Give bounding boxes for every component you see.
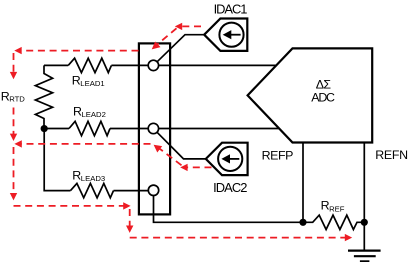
- label R_RTD: [1, 89, 26, 103]
- svg-text:RTD: RTD: [9, 94, 25, 103]
- svg-text:IDAC2: IDAC2: [213, 180, 247, 195]
- svg-text:REF: REF: [329, 204, 345, 213]
- arrow RTD path down upper: [10, 72, 17, 79]
- label R_REF: [321, 198, 345, 213]
- current path: through R_LEAD1 to RTD (red): [14, 51, 139, 138]
- junction node REFP / R_REF left: [299, 219, 306, 226]
- arrow return path down to bottom: [126, 226, 133, 233]
- wire pin 1 to IDAC1: [157, 35, 204, 62]
- wire pin 2 to IDAC2: [157, 132, 206, 159]
- pin 1: [148, 60, 158, 70]
- svg-text:ADC: ADC: [311, 91, 335, 105]
- arrow IDAC1 path left: [175, 23, 182, 30]
- resistor R_REF: [303, 215, 364, 229]
- arrow return path down: [10, 193, 17, 200]
- pin 3: [148, 185, 158, 195]
- wire pin 3 to reference node: [154, 196, 304, 223]
- wire top of RTD to R_LEAD1: [44, 64, 68, 66]
- wire pin 1 to ADC AINP: [159, 64, 278, 66]
- arrow IDAC2 path into pin2: [154, 145, 163, 153]
- resistor R_LEAD1: [68, 58, 111, 72]
- arrow RTD path down lower: [10, 134, 17, 141]
- current path: IDAC2 output segment (red): [17, 144, 211, 168]
- wire R_LEAD3 to pin 3: [114, 190, 149, 192]
- multiplexer input box: [139, 43, 170, 214]
- wire RTD bottom to R_LEAD2: [44, 128, 69, 130]
- arrow IDAC2 path left: [180, 164, 187, 171]
- svg-text:LEAD3: LEAD3: [81, 174, 105, 183]
- arrow return path right: [123, 202, 130, 209]
- ground: [348, 251, 381, 262]
- resistor R_RTD: [35, 65, 52, 128]
- arrow IDAC1 path into pin1: [152, 42, 161, 50]
- svg-text:REFP: REFP: [262, 148, 294, 162]
- wire RTD bottom down to R_LEAD3 row: [44, 129, 70, 191]
- resistor R_LEAD3: [71, 183, 114, 197]
- wire pin 2 to ADC AINN: [159, 128, 280, 130]
- arrow RTD path left: [14, 47, 21, 54]
- resistor R_LEAD2: [69, 121, 110, 135]
- op-amp/ADC block U1: [248, 48, 373, 142]
- svg-text:IDAC1: IDAC1: [214, 1, 248, 16]
- wire REFN: [363, 143, 365, 250]
- wire REFP: [302, 143, 304, 223]
- label R_LEAD1: [72, 74, 105, 88]
- svg-text:LEAD1: LEAD1: [80, 79, 104, 88]
- junction node at RTD bottom: [41, 125, 48, 132]
- arrow return path into reference: [345, 234, 352, 241]
- current source IDAC2: [206, 143, 248, 175]
- arrow IDAC2 path left end: [14, 140, 21, 147]
- current source IDAC1: [204, 19, 247, 51]
- label R_LEAD2: [73, 105, 106, 119]
- junction node REFN / R_REF right: [361, 219, 368, 226]
- wire R_LEAD1 to pin 1: [111, 64, 148, 66]
- pin 2: [148, 123, 158, 133]
- label R_LEAD3: [72, 169, 105, 183]
- svg-text:LEAD2: LEAD2: [82, 110, 106, 119]
- current path: return through R_LEAD3 (red): [14, 147, 347, 238]
- svg-text:ΔΣ: ΔΣ: [316, 78, 332, 92]
- svg-text:REFN: REFN: [375, 148, 408, 162]
- wire R_LEAD2 to pin 2: [110, 128, 148, 130]
- current path: IDAC1 output segment (red): [155, 26, 202, 46]
